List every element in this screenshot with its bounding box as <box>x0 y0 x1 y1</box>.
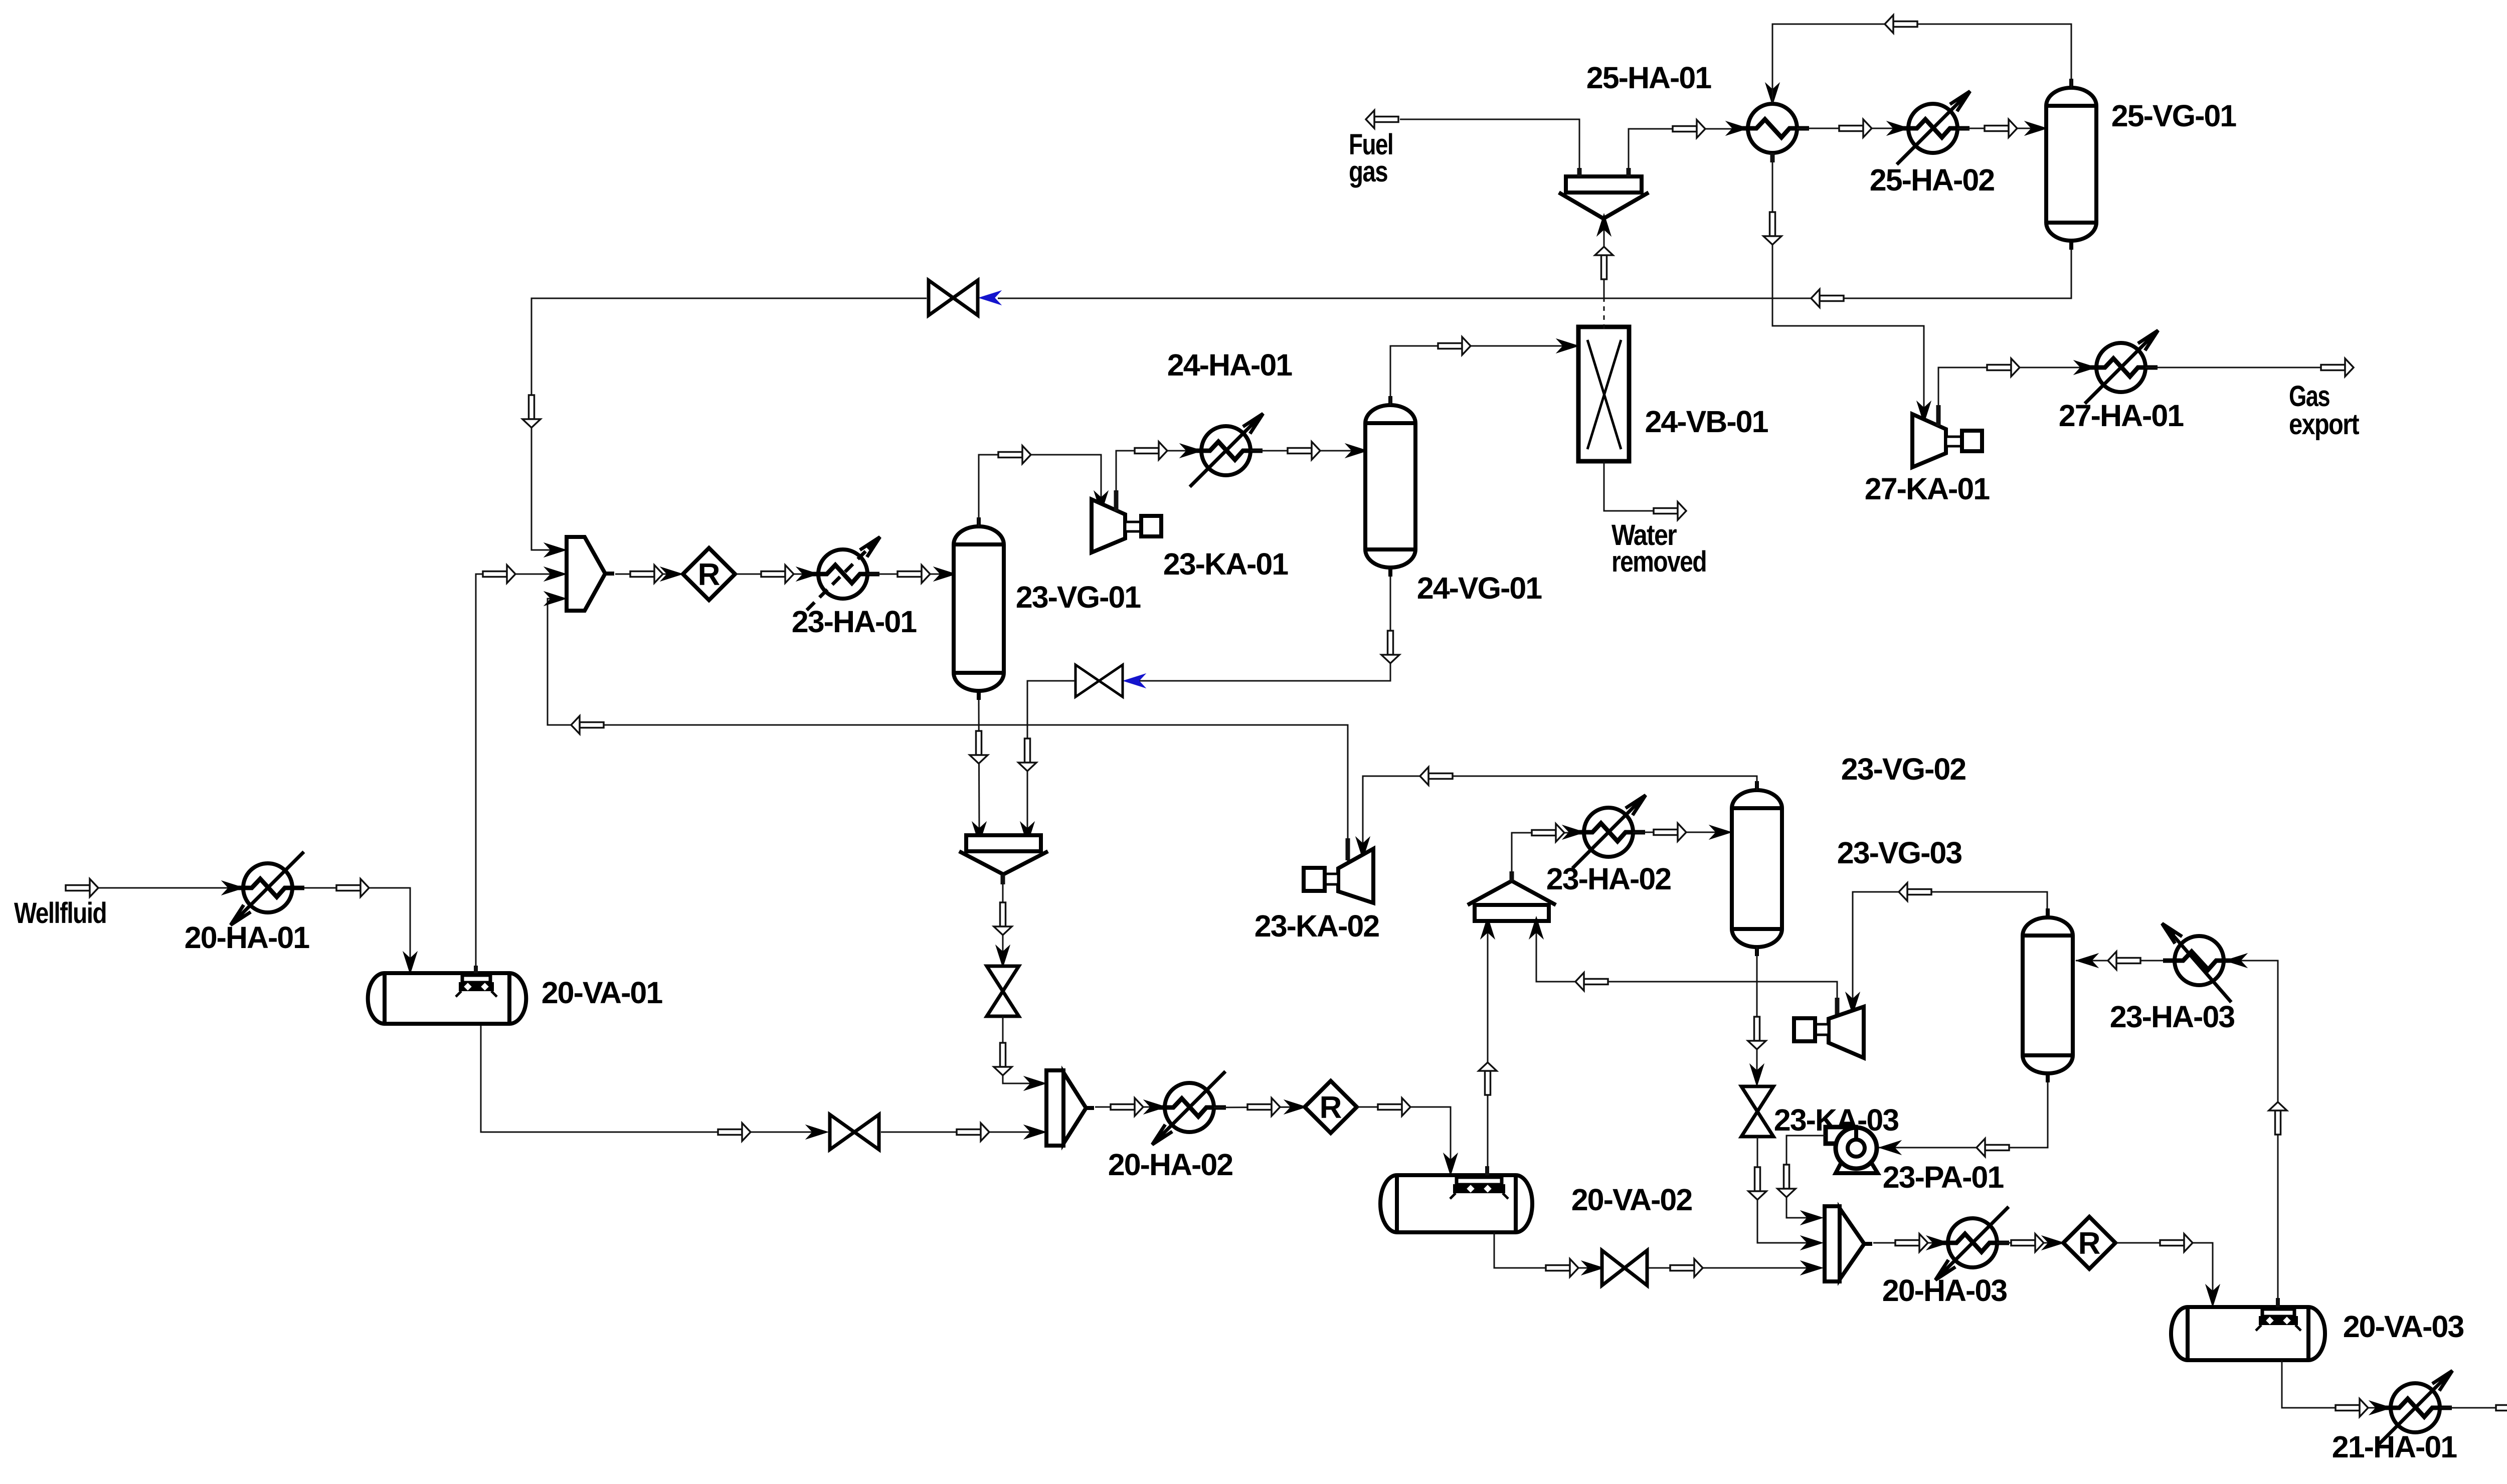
solid arrow into mixer M2 top inlet <box>1025 1077 1045 1090</box>
flow arrow 25-VG-01 overhead <box>1885 15 1917 33</box>
vessel 20-VA-02 <box>1380 1175 1532 1232</box>
vessel 23-VG-01 <box>954 517 1004 700</box>
heat exchanger 20-HA-03 <box>1935 1207 2009 1280</box>
svg-text:25-HA-02: 25-HA-02 <box>1870 163 1995 197</box>
flow arrow after 20-HA-03 <box>2011 1234 2044 1252</box>
solid arrow into 23-HA-03 <box>2226 954 2246 967</box>
solid arrow into mixer M1 top inlet <box>545 543 566 556</box>
svg-text:20-VA-03: 20-VA-03 <box>2343 1310 2464 1344</box>
solid arrow into R3 <box>2043 1236 2063 1249</box>
stub tent apex <box>1510 871 1514 881</box>
wire 24-VB-01 dashed stub <box>1603 299 1605 329</box>
solid arrow into 20-VA-03 top <box>2206 1285 2219 1306</box>
flow arrow 24-VG-01 overhead <box>1438 337 1471 355</box>
heat exchanger 23-HA-01 <box>807 537 880 610</box>
wire 20-VA-03 bottom to 21-HA-01 <box>2282 1360 2388 1408</box>
blue arrow into valve V1 <box>980 291 1000 304</box>
svg-text:23-VG-01: 23-VG-01 <box>1016 580 1141 614</box>
solid arrow into mixer M1 bottom inlet <box>545 592 566 605</box>
splitter S1 fuel gas <box>1559 176 1649 219</box>
flow arrow after 27-KA-01 <box>1987 358 2020 377</box>
solid arrow into R1 <box>661 568 682 581</box>
flow arrow before 23-VG-03 <box>2108 952 2140 970</box>
flow arrow wellfluid <box>66 879 98 897</box>
tent mixer T1 <box>1468 881 1556 921</box>
flow arrow after funnel F1 <box>994 902 1012 935</box>
svg-text:24-HA-01: 24-HA-01 <box>1167 348 1293 382</box>
wire 23-VG-03 top to 23-KA-03 <box>1853 892 2047 1009</box>
solid arrow into 23-KA-03 <box>1846 993 1859 1014</box>
solid arrow into mixer M2 bottom inlet <box>1025 1126 1045 1139</box>
solid arrow into 23-HA-02 <box>1563 826 1584 839</box>
heat exchanger 21-HA-01 <box>2379 1371 2452 1444</box>
heat exchanger 27-HA-01 <box>2085 330 2158 404</box>
solid arrow into 23-KA-02 <box>1356 838 1369 858</box>
wire 25-VG-01 top to 25-HA-01 top <box>1772 24 2071 103</box>
flow arrow 20-VA-03 vapor up <box>2269 1102 2287 1135</box>
stub splitter S1 left <box>1577 168 1582 176</box>
solid arrow into 25-VG-01 <box>2026 122 2046 135</box>
solid arrow into 20-HA-03 <box>1927 1236 1948 1249</box>
wire R1 to 23-HA-01 <box>735 574 816 575</box>
flow arrow to 25-HA-01 <box>1673 120 1705 138</box>
valve V4 <box>830 1115 879 1150</box>
internal box 20-VA-02 <box>1450 1177 1508 1199</box>
solid arrow into valve V6 <box>1750 1065 1763 1085</box>
wire 23-VG-01 bottom to funnel F1 <box>979 700 979 832</box>
flow arrow 25-HA-01 bottoms down <box>1763 212 1781 245</box>
heat exchanger 25-HA-01 <box>1736 104 1809 153</box>
flow arrow before 24-VG-01 <box>1288 442 1320 460</box>
solid arrow into funnel F1 left inlet <box>973 823 986 843</box>
flow arrow 23-VG-02 overhead <box>1420 767 1453 785</box>
flow arrow after mixer M1 <box>630 565 663 583</box>
wire 20-VA-01 bottom to valve V4 <box>481 1024 826 1132</box>
stub 23-KA-02 discharge <box>1346 838 1350 860</box>
wire valve V4 to mixer M2 <box>881 1132 1044 1133</box>
vessel 23-VG-03 <box>2023 908 2073 1082</box>
solid arrow into mixer M3 bottom inlet <box>1802 1261 1822 1274</box>
heat exchanger 20-HA-02 <box>1152 1071 1226 1145</box>
mixer M3 <box>1825 1206 1872 1281</box>
solid arrow into tent mixer right inlet <box>1530 917 1543 938</box>
wire 21-HA-01 to pump 21-PA-01 <box>2440 1407 2507 1409</box>
water removed outlet arrow <box>1654 502 1686 520</box>
svg-text:23-PA-01: 23-PA-01 <box>1883 1160 2004 1194</box>
svg-text:23-VG-02: 23-VG-02 <box>1841 752 1966 786</box>
internal box 20-VA-01 <box>456 975 497 997</box>
flow arrow 23-VG-01 overhead <box>998 446 1031 464</box>
svg-text:27-HA-01: 27-HA-01 <box>2059 399 2184 433</box>
wire 24-VG-01 bottom to valve V2 <box>1131 577 1390 681</box>
svg-text:gas: gas <box>1349 155 1387 188</box>
svg-text:R: R <box>698 558 721 592</box>
heat exchanger 20-HA-01 <box>231 852 304 925</box>
wire 23-KA-03 discharge to tent mixer <box>1536 922 1837 1016</box>
svg-text:27-KA-01: 27-KA-01 <box>1865 472 1990 506</box>
solid arrow into 20-VA-02 top <box>1444 1154 1457 1175</box>
flow arrow after R1 <box>761 565 794 583</box>
valve V6 <box>1741 1086 1773 1137</box>
wire 25-HA-01 to 25-HA-02 <box>1797 128 1907 129</box>
flow arrow before 23-VG-01 <box>898 565 930 583</box>
wire 23-HA-02 to 23-VG-02 <box>1633 832 1730 833</box>
solid arrow into funnel F1 right inlet <box>1021 823 1034 843</box>
stub 20-VA-03 inlet device <box>2276 1298 2280 1308</box>
stub funnel F1 outlet <box>1001 874 1005 884</box>
svg-text:23-HA-01: 23-HA-01 <box>792 605 917 639</box>
svg-text:23-KA-01: 23-KA-01 <box>1163 547 1289 581</box>
stub 23-KA-03 discharge <box>1835 998 1840 1017</box>
fuel gas outlet arrow <box>1366 110 1398 128</box>
valve V5 <box>1602 1250 1647 1285</box>
wire 23-VG-03 bottom to pump 23-PA-01 <box>1879 1082 2048 1148</box>
wire 23-VG-01 top to 23-KA-01 <box>979 455 1101 526</box>
wire splitter S1 right to 25-HA-01 <box>1629 129 1746 176</box>
svg-text:20-HA-03: 20-HA-03 <box>1882 1273 2007 1308</box>
flow arrow 23-VG-02 bottoms <box>1748 1017 1766 1049</box>
solid arrow into valve V3 <box>996 946 1009 967</box>
wire splitter S1 left to fuel gas <box>1400 119 1579 176</box>
flow arrow 20-VA-01 vapor <box>483 565 515 583</box>
flow arrow before mixer M2 <box>957 1123 989 1141</box>
internal box 20-VA-03 <box>2256 1309 2301 1331</box>
flow arrow 20-VA-02 vapor up <box>1479 1062 1497 1095</box>
wire R2 to 20-VA-02 <box>1357 1107 1451 1172</box>
wire tent mixer to 23-HA-02 <box>1512 833 1583 877</box>
flow arrow 23-VG-03 overhead <box>1899 883 1931 901</box>
wire mixer M1 to R1 <box>615 574 681 575</box>
vessel 25-VG-01 <box>2046 79 2096 250</box>
vessel 20-VA-01 <box>368 973 526 1024</box>
compressor 27-KA-01 <box>1912 414 1982 467</box>
wire 23-KA-02 discharge recycle <box>548 599 1348 863</box>
compressor 23-KA-01 <box>1092 499 1161 552</box>
solid arrow into 24-VB-01 <box>1557 339 1578 352</box>
wire recycle from 25-VG-01 bottom <box>998 249 2071 298</box>
solid arrow into tent mixer left inlet <box>1481 917 1494 938</box>
wire 24-HA-01 to 24-VG-01 <box>1250 450 1366 452</box>
wire 24-VB-01 bottom to water removed <box>1604 461 1653 511</box>
wire 23-HA-03 to 23-VG-03 <box>2076 960 2175 962</box>
heat exchanger 24-HA-01 <box>1190 414 1263 487</box>
valve V2 <box>1076 665 1123 697</box>
svg-text:23-VG-03: 23-VG-03 <box>1837 836 1962 870</box>
flow arrow between 25-HA-01 and 25-HA-02 <box>1839 119 1872 137</box>
flow arrow before 23-VG-02 <box>1654 823 1686 841</box>
solid arrow into 25-HA-01 <box>1727 122 1747 135</box>
wire 23-VG-02 top to 23-KA-02 <box>1363 776 1757 852</box>
svg-text:20-VA-01: 20-VA-01 <box>542 976 663 1010</box>
gas export outlet arrow <box>2321 358 2354 377</box>
stub splitter S1 right <box>1627 168 1631 176</box>
svg-text:24-VB-01: 24-VB-01 <box>1645 405 1768 439</box>
solid arrow into valve V5 <box>1582 1261 1603 1274</box>
flow arrow after mixer M3 <box>1895 1234 1928 1252</box>
svg-text:20-HA-02: 20-HA-02 <box>1108 1148 1233 1182</box>
flow arrow after R3 <box>2160 1234 2193 1252</box>
svg-text:Wellfluid: Wellfluid <box>14 897 106 930</box>
wire wellfluid inlet <box>70 887 243 889</box>
wire funnel F1 to valve V3 <box>1002 874 1004 964</box>
wire 23-HA-01 to 23-VG-01 <box>867 574 953 575</box>
wire 20-VA-02 vapor to tent mixer <box>1487 922 1489 1175</box>
stub 23-KA-01 discharge <box>1114 490 1119 511</box>
solid arrow into 27-KA-01 <box>1917 402 1930 423</box>
svg-text:23-HA-02: 23-HA-02 <box>1546 862 1671 896</box>
flow arrow recycle down <box>522 395 541 428</box>
flow arrow pump discharge down <box>1777 1165 1796 1197</box>
vessel 20-VA-03 <box>2171 1307 2325 1360</box>
wire valve V3 to mixer M2 top inlet <box>1003 1016 1044 1083</box>
solid arrow into 25-HA-01 top <box>1766 84 1779 104</box>
solid arrow into 23-VG-02 <box>1710 826 1731 839</box>
solid arrow into 24-VG-01 <box>1346 444 1367 457</box>
mixer M1 <box>567 537 614 611</box>
heat exchanger 23-HA-03 <box>2162 923 2236 1002</box>
svg-text:export: export <box>2289 408 2359 441</box>
wire 23-KA-01 to 24-HA-01 <box>1116 451 1198 510</box>
wire 25-HA-01 bottom to 27-KA-01 <box>1772 162 1924 416</box>
wire mixer M2 to 20-HA-02 <box>1095 1106 1163 1108</box>
funnel F1 mixer <box>959 835 1048 874</box>
flow arrow after tent mixer <box>1532 824 1564 842</box>
solid arrow into mixer M3 top inlet <box>1802 1211 1822 1224</box>
solid arrow into splitter S1 apex <box>1597 215 1610 235</box>
flow arrow 20-VA-02 bottoms <box>1546 1259 1578 1277</box>
svg-text:25-HA-01: 25-HA-01 <box>1586 61 1712 95</box>
flow arrow 24-VG-01 bottoms <box>1381 631 1399 663</box>
compressor 23-KA-02 <box>1304 849 1373 903</box>
wire 27-HA-01 to gas export <box>2145 367 2320 368</box>
flow arrow 23-KA-03 discharge <box>1575 973 1608 991</box>
solid arrow into 23-VG-03 <box>2077 954 2097 967</box>
flow arrow after R2 <box>1378 1098 1410 1116</box>
wire 20-HA-01 to 20-VA-01 <box>293 888 410 971</box>
wire 20-VA-03 vapor to 23-HA-03 <box>2225 961 2278 1307</box>
wire valve V6 to mixer M3 middle inlet <box>1757 1137 1821 1243</box>
wire 23-VG-02 bottom to valve V6 <box>1756 947 1758 1083</box>
wire 24-VB-01 top to splitter S1 <box>1603 221 1605 301</box>
solid arrow into 23-KA-01 <box>1095 492 1108 512</box>
solid arrow into 20-HA-01 <box>223 881 243 894</box>
svg-text:20-VA-02: 20-VA-02 <box>1571 1183 1692 1217</box>
flow arrow before 25-VG-01 <box>1985 119 2017 137</box>
valve V3 <box>987 966 1019 1016</box>
wire valve V5 to mixer M3 <box>1648 1267 1821 1269</box>
solid arrow into 23-VG-01 <box>935 568 955 581</box>
solid arrow into 20-HA-02 <box>1145 1100 1165 1114</box>
svg-text:R: R <box>1320 1090 1342 1125</box>
wire 25-HA-02 to 25-VG-01 <box>1957 128 2045 129</box>
mixer M2 <box>1046 1070 1094 1146</box>
flow arrow after 23-KA-01 <box>1135 442 1167 460</box>
flow arrow recycle left <box>1811 289 1844 307</box>
recycle block R2 <box>1305 1081 1357 1133</box>
stub 20-VA-02 inlet device <box>1485 1166 1489 1176</box>
solid arrow into mixer M1 mid inlet <box>545 568 566 581</box>
svg-text:23-HA-03: 23-HA-03 <box>2110 1000 2235 1034</box>
flow arrow into funnel F1 right <box>1018 738 1036 771</box>
flow arrow up to splitter S1 <box>1595 247 1613 279</box>
flow arrow 23-VG-03 bottoms <box>1977 1139 2009 1157</box>
solid arrow into 25-HA-02 <box>1888 122 1908 135</box>
vessel 24-VG-01 <box>1365 396 1415 577</box>
solid arrow into 21-HA-01 <box>2370 1401 2391 1414</box>
flow arrow recycle mid left <box>571 716 604 734</box>
wire R3 to 20-VA-03 <box>2115 1243 2213 1304</box>
svg-text:R: R <box>2078 1226 2101 1261</box>
wire 20-HA-03 to R3 <box>1997 1242 2062 1244</box>
svg-text:20-HA-01: 20-HA-01 <box>185 920 310 955</box>
flow arrow before mixer M3 <box>1670 1259 1703 1277</box>
flow arrow 23-VG-01 bottoms <box>970 731 988 764</box>
compressor 23-KA-03 <box>1794 1007 1864 1058</box>
flow arrow 20-VA-03 bottoms <box>2336 1399 2368 1417</box>
solid arrow into valve V4 <box>807 1126 827 1139</box>
svg-text:25-VG-01: 25-VG-01 <box>2111 99 2237 133</box>
wire valve V2 to funnel F1 <box>1027 681 1076 832</box>
solid arrow into 27-HA-01 <box>2075 361 2095 374</box>
solid arrow into 20-VA-01 top <box>404 953 417 973</box>
flow arrow after 20-HA-01 <box>336 879 369 897</box>
flow arrow 20-VA-01 bottoms <box>718 1123 751 1141</box>
heat exchanger 25-HA-02 <box>1897 91 1970 164</box>
recycle block R1 <box>683 548 735 600</box>
flow arrow after valve V6 <box>1748 1167 1766 1200</box>
contactor 24-VB-01 <box>1578 327 1629 461</box>
wire 25-HA-01 bottom stub <box>1770 153 1775 162</box>
valve V1 <box>929 280 978 315</box>
solid arrow into pump 23-PA-01 <box>1880 1141 1900 1154</box>
svg-text:23-KA-02: 23-KA-02 <box>1255 909 1379 943</box>
wire 20-VA-02 bottom to valve V5 <box>1494 1232 1601 1268</box>
solid arrow into 24-HA-01 <box>1181 444 1201 457</box>
flow arrow after 20-HA-02 <box>1247 1098 1280 1116</box>
recycle block R3 <box>2063 1217 2115 1269</box>
svg-text:21-HA-01: 21-HA-01 <box>2332 1430 2457 1464</box>
svg-text:24-VG-01: 24-VG-01 <box>1417 571 1542 605</box>
stub 20-VA-01 inlet device <box>474 966 478 976</box>
flow arrow before pump 21-PA-01 <box>2496 1399 2507 1417</box>
wire 27-KA-01 to 27-HA-01 <box>1938 367 2094 424</box>
wire 20-VA-01 vapor to mixer M1 <box>476 574 563 975</box>
solid arrow into R2 <box>1285 1100 1306 1114</box>
wire valve V1 to mixer M1 top inlet <box>531 298 927 550</box>
pump 23-PA-01 <box>1826 1127 1878 1173</box>
solid arrow into mixer M3 middle inlet <box>1802 1236 1822 1249</box>
heat exchanger 23-HA-02 <box>1572 795 1646 868</box>
wire mixer M3 to 20-HA-03 <box>1873 1242 1947 1244</box>
solid arrow into 23-HA-01 <box>797 568 818 581</box>
blue arrow into valve V2 <box>1124 674 1145 687</box>
wire pump 23-PA-01 to mixer M3 top inlet <box>1786 1136 1826 1218</box>
svg-text:removed: removed <box>1611 545 1706 578</box>
flow arrow after mixer M2 <box>1111 1098 1143 1116</box>
stub 27-KA-01 discharge <box>1936 405 1941 426</box>
flow arrow after valve V3 <box>994 1043 1012 1075</box>
wire 24-VG-01 top to 24-VB-01 <box>1390 346 1577 405</box>
wire 20-HA-02 to R2 <box>1214 1107 1304 1107</box>
vessel 23-VG-02 <box>1732 781 1782 956</box>
